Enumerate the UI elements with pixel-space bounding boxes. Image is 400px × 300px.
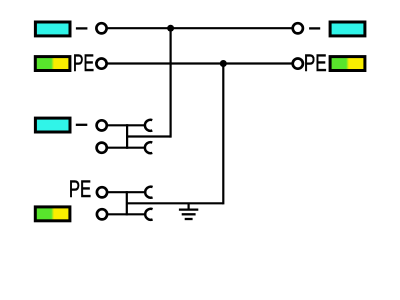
svg-text:PE: PE <box>73 50 94 77</box>
clamp circle 1 left <box>96 23 106 33</box>
svg-text:PE: PE <box>304 50 327 77</box>
bridge bar group 4 <box>126 191 128 215</box>
wire row 1 <box>108 27 292 29</box>
clamp circle 4 upper <box>97 187 107 197</box>
disconnect contact 3 lower <box>145 142 152 153</box>
clamp circle 4 lower <box>97 209 107 219</box>
ground bar 3 <box>185 218 193 220</box>
clamp circle 2 left <box>96 59 106 69</box>
disconnect contact 4 lower <box>145 209 152 220</box>
wire 4 upper <box>108 191 146 193</box>
bridge bar group 3 <box>126 124 128 149</box>
disconnect contact 4 upper <box>145 187 152 198</box>
link wire group 3 <box>127 135 171 137</box>
ground stem <box>188 203 190 209</box>
clamp circle 3 upper <box>97 120 107 130</box>
wire 3 upper <box>108 124 146 126</box>
riser wire group 4 to row 2 <box>222 64 224 205</box>
terminal marker 1 left (cyan) <box>35 22 70 36</box>
wire row 2 <box>108 62 292 64</box>
terminal marker 1 right (cyan) <box>330 22 365 36</box>
terminal marker 4 left (green-yellow PE) <box>35 207 70 221</box>
clamp circle 1 right <box>293 23 303 33</box>
riser wire group 3 to row 1 <box>170 28 172 137</box>
disconnect contact 3 upper <box>145 120 152 131</box>
wire 3 lower <box>108 147 146 149</box>
ground bar 1 <box>179 208 198 210</box>
junction node row 2 <box>220 60 227 67</box>
svg-text:PE: PE <box>69 176 91 203</box>
lead dash 1 left <box>76 27 88 29</box>
terminal marker 2 left (green-yellow PE) <box>35 57 70 71</box>
wire 4 lower <box>108 213 146 215</box>
clamp circle 3 lower <box>97 143 107 153</box>
lead dash 1 right <box>309 27 320 29</box>
terminal marker 3 left (cyan) <box>35 118 70 132</box>
terminal marker 2 right (green-yellow PE) <box>330 57 365 71</box>
junction node row 1 <box>167 25 174 32</box>
ground bar 2 <box>182 213 196 215</box>
lead dash 3 <box>76 124 88 126</box>
link wire group 4 <box>127 202 224 204</box>
clamp circle 2 right <box>293 59 303 69</box>
